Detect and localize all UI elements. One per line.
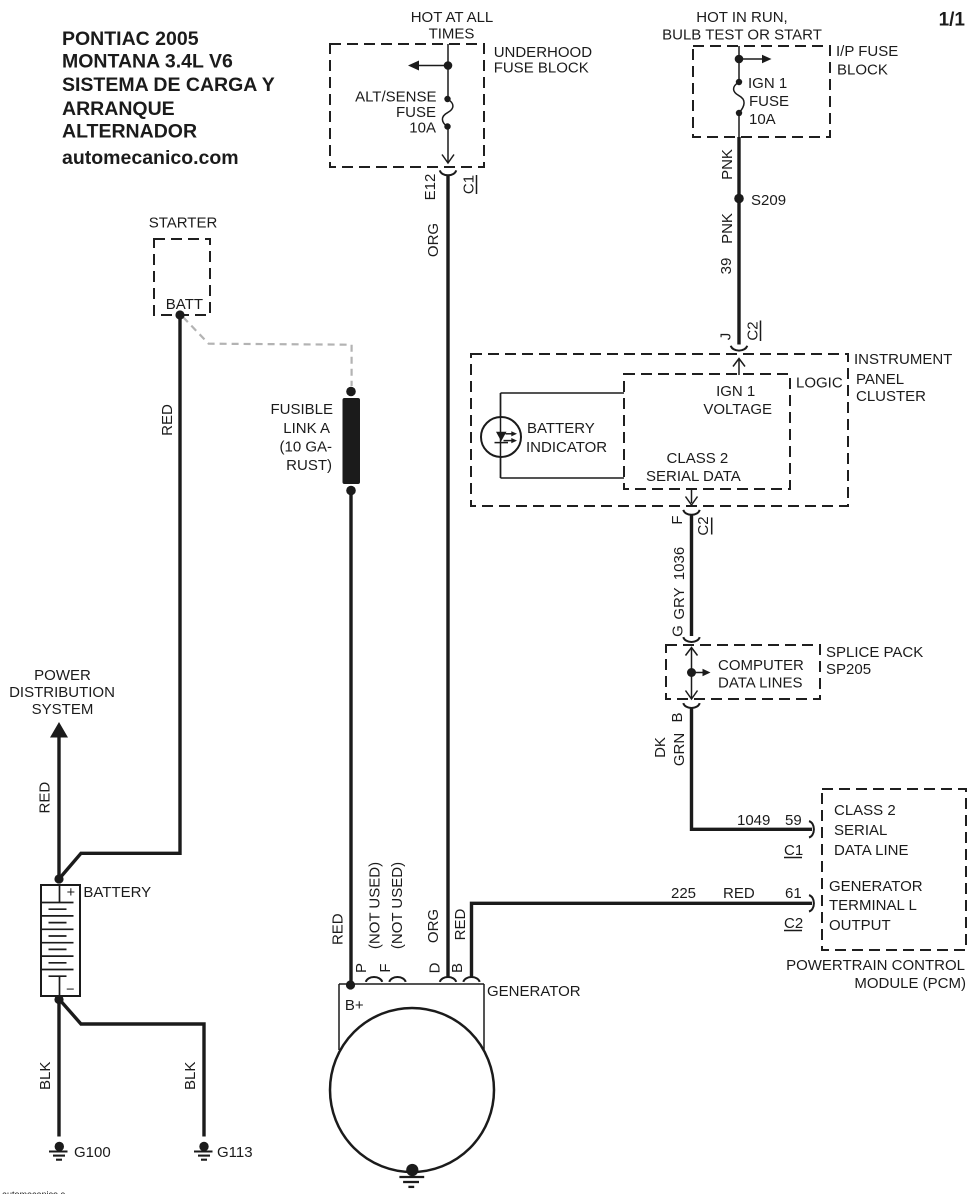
svg-text:61: 61	[785, 885, 802, 902]
svg-text:STARTER: STARTER	[149, 214, 218, 231]
svg-text:ARRANQUE: ARRANQUE	[62, 98, 175, 120]
svg-text:ORG: ORG	[425, 223, 442, 257]
svg-text:−: −	[66, 982, 74, 998]
svg-text:INDICATOR: INDICATOR	[526, 439, 607, 456]
svg-text:P: P	[353, 963, 370, 973]
svg-text:G: G	[670, 625, 687, 637]
svg-text:FUSE: FUSE	[749, 93, 789, 110]
svg-text:IGN 1: IGN 1	[716, 383, 755, 400]
svg-text:TIMES: TIMES	[429, 25, 475, 42]
svg-text:ORG: ORG	[425, 909, 442, 943]
svg-text:FUSE: FUSE	[396, 104, 436, 121]
svg-text:SERIAL: SERIAL	[834, 822, 887, 839]
svg-text:FUSIBLE: FUSIBLE	[270, 401, 333, 418]
svg-text:F: F	[377, 963, 394, 972]
svg-text:BATTERY: BATTERY	[83, 884, 151, 901]
svg-text:1036: 1036	[671, 547, 688, 580]
svg-text:TERMINAL L: TERMINAL L	[829, 897, 917, 914]
svg-text:GENERATOR: GENERATOR	[487, 983, 581, 1000]
svg-text:automecanico.c: automecanico.c	[2, 1190, 66, 1194]
svg-text:BATTERY: BATTERY	[527, 420, 595, 437]
svg-text:LINK A: LINK A	[283, 420, 330, 437]
svg-text:D: D	[427, 962, 444, 973]
svg-text:RED: RED	[37, 782, 54, 814]
svg-text:BULB TEST OR START: BULB TEST OR START	[662, 27, 822, 44]
svg-text:automecanico.com: automecanico.com	[62, 147, 239, 169]
svg-text:SISTEMA DE CARGA Y: SISTEMA DE CARGA Y	[62, 74, 275, 96]
svg-text:UNDERHOOD: UNDERHOOD	[494, 44, 593, 61]
svg-text:PNK: PNK	[719, 213, 736, 244]
svg-text:CLUSTER: CLUSTER	[856, 388, 926, 405]
svg-text:GRN: GRN	[671, 733, 688, 766]
svg-text:FUSE BLOCK: FUSE BLOCK	[494, 60, 589, 77]
svg-text:MONTANA 3.4L V6: MONTANA 3.4L V6	[62, 51, 233, 73]
svg-text:MODULE (PCM): MODULE (PCM)	[854, 975, 966, 992]
svg-text:1/1: 1/1	[939, 10, 966, 31]
svg-text:COMPUTER: COMPUTER	[718, 657, 804, 674]
svg-text:RUST): RUST)	[286, 457, 332, 474]
svg-text:10A: 10A	[749, 111, 776, 128]
svg-text:BLK: BLK	[182, 1062, 199, 1090]
svg-text:E12: E12	[422, 174, 439, 201]
svg-text:B: B	[449, 963, 466, 973]
svg-text:GRY: GRY	[671, 587, 688, 619]
svg-text:RED: RED	[723, 885, 755, 902]
svg-text:SERIAL DATA: SERIAL DATA	[646, 468, 741, 485]
svg-text:+: +	[67, 885, 75, 901]
svg-text:C1: C1	[461, 175, 478, 194]
svg-text:225: 225	[671, 885, 696, 902]
svg-text:PANEL: PANEL	[856, 371, 904, 388]
svg-text:(NOT USED): (NOT USED)	[367, 862, 384, 949]
svg-text:(10 GA-: (10 GA-	[279, 439, 332, 456]
svg-text:CLASS 2: CLASS 2	[667, 450, 729, 467]
svg-text:BATT: BATT	[166, 296, 203, 313]
svg-text:RED: RED	[330, 913, 347, 945]
svg-text:RED: RED	[452, 908, 469, 940]
svg-text:C1: C1	[784, 842, 803, 859]
svg-text:HOT IN RUN,: HOT IN RUN,	[696, 9, 787, 26]
svg-text:VOLTAGE: VOLTAGE	[703, 401, 772, 418]
svg-text:39: 39	[718, 258, 735, 275]
svg-text:SYSTEM: SYSTEM	[32, 701, 94, 718]
svg-text:INSTRUMENT: INSTRUMENT	[854, 351, 952, 368]
svg-text:OUTPUT: OUTPUT	[829, 917, 891, 934]
svg-text:POWER: POWER	[34, 667, 91, 684]
svg-text:C2: C2	[784, 915, 803, 932]
svg-text:LOGIC: LOGIC	[796, 375, 843, 392]
svg-text:1049: 1049	[737, 812, 770, 829]
svg-text:S209: S209	[751, 192, 786, 209]
svg-text:DATA LINE: DATA LINE	[834, 842, 908, 859]
svg-text:J: J	[718, 333, 735, 341]
svg-text:PNK: PNK	[719, 149, 736, 180]
svg-text:CLASS 2: CLASS 2	[834, 802, 896, 819]
svg-text:HOT AT ALL: HOT AT ALL	[411, 9, 494, 26]
svg-text:PONTIAC 2005: PONTIAC 2005	[62, 28, 199, 50]
svg-text:DK: DK	[652, 737, 669, 758]
svg-text:F: F	[669, 515, 686, 524]
svg-text:POWERTRAIN CONTROL: POWERTRAIN CONTROL	[786, 957, 965, 974]
svg-text:10A: 10A	[409, 120, 436, 137]
svg-text:RED: RED	[159, 404, 176, 436]
svg-text:SP205: SP205	[826, 661, 871, 678]
svg-text:59: 59	[785, 812, 802, 829]
svg-text:BLK: BLK	[37, 1062, 54, 1090]
svg-text:C2: C2	[745, 321, 762, 340]
svg-text:B+: B+	[345, 997, 364, 1014]
svg-text:I/P FUSE: I/P FUSE	[836, 43, 898, 60]
svg-text:DISTRIBUTION: DISTRIBUTION	[9, 684, 115, 701]
svg-text:SPLICE PACK: SPLICE PACK	[826, 644, 923, 661]
svg-text:G113: G113	[217, 1144, 253, 1161]
svg-text:ALTERNADOR: ALTERNADOR	[62, 121, 197, 143]
svg-text:IGN 1: IGN 1	[748, 75, 787, 92]
svg-text:DATA LINES: DATA LINES	[718, 675, 802, 692]
svg-text:(NOT USED): (NOT USED)	[389, 862, 406, 949]
svg-text:BLOCK: BLOCK	[837, 62, 888, 79]
svg-text:C2: C2	[695, 516, 712, 535]
svg-text:B: B	[669, 712, 686, 722]
svg-text:G100: G100	[74, 1144, 111, 1161]
svg-text:GENERATOR: GENERATOR	[829, 878, 923, 895]
